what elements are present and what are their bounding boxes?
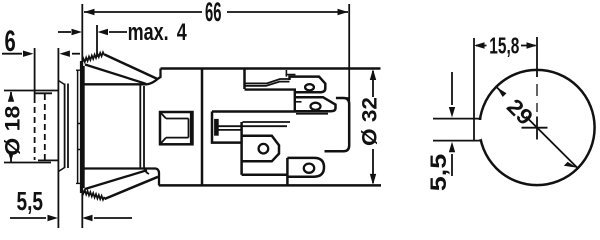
lower shelf [242,174,288,177]
dia18 dimension arrows [10,92,12,101]
cap top slant inner [85,65,146,84]
svg-text:5,5: 5,5 [17,186,44,216]
max.4 right boundary line x=97 [96,25,98,57]
cap front ring line [77,70,79,185]
dimension max.4 arrows [58,31,71,33]
extension line right x=349.2 [348,4,350,101]
body top edge + dia32 top ext [161,67,381,70]
body bottom edge + dia32 bottom ext [159,184,381,187]
slot + extension lines [433,118,482,120]
svg-text:Ø 18: Ø 18 [1,106,25,156]
arrowhead 66 left [84,9,95,15]
rear shelf [212,110,296,113]
phantom solid caps [35,92,52,94]
svg-text:6: 6 [5,25,16,58]
svg-text:5,5: 5,5 [426,154,451,192]
flange rear double [139,84,141,168]
terminal T3 [242,136,279,162]
knurl top [82,52,104,63]
cap ring ticks [76,70,84,183]
T2 tip extension [336,97,349,99]
dia18 extension lines [4,90,58,92]
cap top slant outer [105,55,158,80]
cap bottom slant inner [85,170,147,189]
5,5 bottom-left dimension [10,217,46,219]
phantom cap dashed [34,97,36,160]
29 diagonal [497,87,578,168]
top terminal block vertical [243,70,246,90]
white-out for slot [470,120,482,139]
vertical x=241.6 [240,122,243,175]
body divider x=202 [201,69,204,186]
terminal T1 [290,77,326,93]
svg-text:15,8: 15,8 [489,32,519,58]
crimp lines T1 [245,79,290,83]
front boss rectangle [160,112,193,144]
knurl bottom [82,189,104,200]
cap outer face [80,61,82,193]
dimension 6 [2,53,22,55]
spring washer verticals [64,84,66,169]
dia32 dimension line [372,71,374,183]
svg-text:max.: max. [128,19,169,46]
cap inner face [83,66,85,188]
plunger bar [215,120,218,135]
T1 crimp wing stub [286,70,296,77]
svg-text:Ø 32: Ø 32 [358,97,382,146]
5,5 right arrows [451,72,453,105]
cap bottom slant outer [105,177,159,199]
extension line left (cap face, x=82.5) [81,4,83,228]
barrel top and bottom [84,83,148,85]
line x=58.4 (phantom right edge / 5,5 left) [57,48,59,228]
T2 crimp stub [296,101,302,103]
dimension 66 line [84,11,348,13]
svg-text:29: 29 [502,94,538,130]
center cross [522,127,548,129]
circle [479,70,594,185]
svg-text:66: 66 [205,0,222,27]
top step to body [148,69,161,85]
terminal T2 [296,97,336,111]
rear bulge [325,98,350,151]
plunger rod [218,126,287,130]
svg-text:4: 4 [177,19,187,46]
arrowhead 66 right [338,9,349,15]
15,8 dimension [473,38,475,119]
terminal T4 [287,158,324,177]
